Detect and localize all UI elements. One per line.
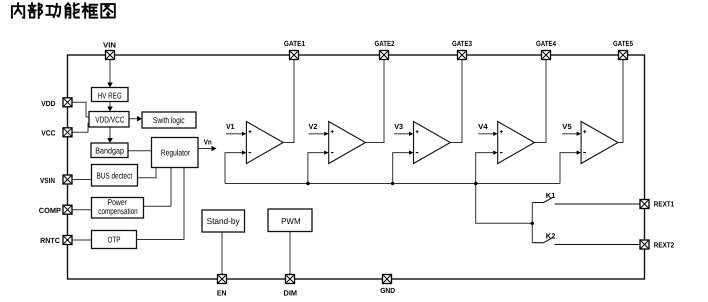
wire Bandgap to Regulator: [128, 150, 152, 152]
wire V2 inverting input: [308, 153, 324, 184]
V5 plus sign: [583, 130, 586, 133]
svg-text:GND: GND: [380, 286, 396, 295]
V5 minus sign: [583, 152, 586, 154]
pin COMP: [63, 205, 72, 214]
pin GATE4: [542, 51, 551, 60]
svg-text:Regulator: Regulator: [161, 148, 190, 158]
V5 plus input wire: [562, 133, 577, 135]
svg-text:GATE3: GATE3: [452, 39, 472, 48]
wire VDD/VCC to Swith logic: [129, 118, 138, 120]
wire COMP pin to Power compensation: [72, 209, 92, 211]
wire VDD/VCC to Bandgap: [109, 127, 111, 140]
svg-text:RNTC: RNTC: [40, 236, 60, 245]
Vn output wire: [198, 148, 212, 150]
block OTP: [92, 231, 137, 249]
arrowhead V1 plus input: [242, 132, 247, 136]
wire V2 output to GATE2: [366, 60, 385, 143]
svg-text:V2: V2: [309, 122, 318, 131]
svg-text:V5: V5: [562, 122, 572, 131]
arrowhead V5 plus input: [577, 132, 582, 136]
pin RNTC: [63, 236, 72, 245]
junction node V3 bus: [391, 182, 394, 185]
wire V5 inverting input: [560, 153, 577, 184]
wire VIN stem to HV REG: [109, 60, 111, 85]
wire Power compensation to Regulator: [144, 168, 172, 207]
arrowhead into VDD/VCC: [107, 107, 113, 112]
block PWM: [268, 209, 312, 232]
wire HV REG to VDD/VCC: [109, 102, 111, 109]
arrowhead into Bandgap: [107, 138, 113, 143]
wire BUS dectect to Regulator: [138, 168, 157, 178]
block Stand-by: [202, 210, 245, 232]
arrowhead V4 plus input: [493, 132, 498, 136]
wire V3 output to GATE3: [450, 60, 462, 143]
svg-text:Stand-by: Stand-by: [207, 216, 241, 226]
op-amp V2: [329, 122, 366, 164]
block Power compensation: [92, 198, 144, 219]
V2 plus input wire: [309, 133, 325, 135]
wire feedback bus to switch pole: [476, 184, 533, 224]
svg-text:REXT2: REXT2: [654, 241, 674, 250]
svg-text:BUS dectect: BUS dectect: [97, 170, 133, 180]
svg-text:V1: V1: [226, 122, 235, 131]
svg-text:PWM: PWM: [281, 216, 301, 226]
svg-text:K1: K1: [546, 191, 556, 200]
pin GATE1: [290, 51, 299, 60]
arrowhead V5 minus input: [577, 151, 582, 155]
wire VCC pin to VDD/VCC: [72, 123, 89, 132]
V3 minus sign: [416, 152, 419, 154]
block BUS dectect: [92, 165, 138, 187]
wire VSIN pin to BUS dectect: [72, 179, 92, 181]
V4 minus sign: [500, 152, 503, 154]
pin GATE2: [380, 51, 389, 60]
IC boundary box: [68, 55, 645, 279]
arrowhead into HV REG: [107, 83, 113, 88]
arrowhead V2 minus input: [324, 151, 329, 155]
pin VSIN: [63, 175, 72, 184]
wire V4 inverting input: [476, 153, 494, 184]
title 内部功能框图: [12, 3, 115, 18]
pin GATE3: [458, 51, 467, 60]
V3 plus sign: [416, 130, 419, 133]
op-amp V5: [581, 122, 618, 164]
wire RNTC pin to OTP: [72, 239, 92, 241]
V4 plus input wire: [478, 133, 493, 135]
svg-text:REXT1: REXT1: [654, 200, 674, 209]
arrowhead Vn output: [212, 146, 217, 152]
pin REXT1: [640, 200, 649, 209]
op-amp V1: [246, 122, 283, 164]
wire V1 inverting input: [225, 153, 242, 184]
V2 plus sign: [331, 130, 334, 133]
svg-text:DIM: DIM: [284, 289, 298, 298]
wire Stand-by to EN: [221, 232, 223, 275]
arrowhead V1 minus input: [242, 151, 247, 155]
op-amp V4: [498, 122, 535, 164]
svg-text:OTP: OTP: [108, 235, 121, 245]
junction node switch pole: [531, 222, 534, 225]
block VDD/VCC: [89, 112, 129, 128]
junction node V2 bus: [306, 182, 309, 185]
block Swith logic: [142, 112, 196, 128]
arrowhead V3 plus input: [409, 132, 414, 136]
wire switch pole vertical: [531, 203, 533, 243]
svg-text:V3: V3: [394, 122, 403, 131]
svg-text:GATE4: GATE4: [536, 39, 557, 48]
wire PWM to DIM: [289, 232, 291, 275]
pin REXT2: [640, 240, 649, 249]
pin VDD: [63, 98, 72, 107]
svg-text:COMP: COMP: [39, 206, 61, 215]
switch K1: [532, 197, 640, 204]
svg-text:GATE1: GATE1: [284, 39, 305, 48]
V1 plus input wire: [226, 133, 242, 135]
svg-text:Bandgap: Bandgap: [95, 145, 124, 155]
svg-text:Swith logic: Swith logic: [153, 115, 185, 125]
pin GND: [383, 275, 392, 284]
arrowhead V4 minus input: [493, 151, 498, 155]
svg-text:VDD/VCC: VDD/VCC: [95, 114, 124, 124]
junction node V4 bus feedback: [474, 182, 477, 185]
arrowhead V3 minus input: [409, 151, 414, 155]
wire OTP to Regulator: [137, 168, 185, 240]
V3 plus input wire: [394, 133, 409, 135]
svg-text:HV REG: HV REG: [98, 91, 122, 101]
wire V1 output to GATE1: [283, 60, 294, 143]
pin GATE5: [619, 51, 628, 60]
svg-text:EN: EN: [217, 289, 227, 298]
V2 minus sign: [331, 152, 334, 154]
svg-text:GATE2: GATE2: [375, 39, 395, 48]
svg-text:VDD: VDD: [41, 99, 56, 108]
V4 plus sign: [500, 130, 503, 133]
pin VIN: [106, 51, 115, 60]
arrowhead into Swith logic: [137, 116, 142, 122]
wire V3 inverting input: [393, 153, 409, 184]
wire inverting bus: [225, 183, 560, 185]
wire V5 output to GATE5: [618, 60, 623, 143]
switch K2: [532, 237, 640, 244]
svg-text:V4: V4: [478, 122, 488, 131]
wire V4 output to GATE4: [535, 60, 547, 143]
pin VCC: [63, 128, 72, 137]
wire VDD pin to VDD/VCC: [72, 102, 89, 117]
svg-text:K2: K2: [546, 232, 556, 241]
V1 minus sign: [249, 152, 252, 154]
arrowhead V2 plus input: [324, 132, 329, 136]
V1 plus sign: [249, 130, 252, 133]
svg-text:VSIN: VSIN: [40, 176, 55, 185]
op-amp V3: [414, 122, 451, 164]
svg-text:VIN: VIN: [103, 41, 116, 50]
svg-text:GATE5: GATE5: [613, 39, 633, 48]
pin EN: [218, 275, 227, 284]
block HV REG: [92, 88, 129, 102]
svg-text:VCC: VCC: [41, 128, 56, 137]
block Regulator: [152, 138, 199, 168]
pin DIM: [286, 275, 295, 284]
svg-text:Vn: Vn: [204, 138, 212, 147]
svg-text:compensation: compensation: [98, 206, 138, 216]
block Bandgap: [91, 143, 128, 158]
